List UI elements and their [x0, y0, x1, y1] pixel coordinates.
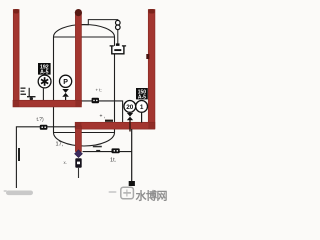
- svg-text:+ ,: + ,: [100, 114, 106, 120]
- blowdown end cap: [129, 181, 135, 186]
- vent line from riser to drain funnel: [81, 20, 118, 25]
- instrument bubble (pump/agitator star): [38, 75, 51, 88]
- open drain funnel box: [110, 46, 127, 54]
- dash above drain line: [93, 146, 102, 148]
- blowdown drop wire: [131, 129, 133, 182]
- svg-text:x.: x.: [64, 160, 67, 165]
- drain line from outlet to blowdown: [83, 151, 132, 153]
- small marks left of instrument: [21, 88, 36, 101]
- wire left gauge through header: [129, 120, 131, 132]
- svg-text:A-5: A-5: [138, 95, 146, 101]
- block valve on condensate line: [40, 125, 48, 130]
- wire right gauge to header: [141, 112, 143, 122]
- stem mark beside condensate drop: [18, 148, 20, 161]
- red header horizontal left: [13, 100, 81, 107]
- tag box 192/A-5: [38, 63, 51, 76]
- svg-text:+ t:: + t:: [96, 88, 102, 93]
- right pipe top cap: [149, 9, 155, 14]
- svg-text:水博网: 水博网: [136, 188, 168, 202]
- svg-text:P: P: [63, 79, 68, 86]
- svg-text:1: 1: [140, 104, 144, 111]
- condensate line left: [16, 127, 75, 188]
- block valve on sample line: [92, 98, 99, 104]
- block valve on drain line: [112, 148, 120, 153]
- tick on bottom header: [105, 120, 113, 122]
- svg-text:t.?): t.?): [37, 117, 45, 123]
- red bottom outlet drop: [75, 126, 81, 152]
- watermark logo badge: [121, 187, 134, 199]
- red bottom header horizontal right: [75, 122, 155, 129]
- gauge bubble right: [136, 101, 148, 113]
- wire below positioner: [78, 168, 80, 178]
- tank V1 (vertical vessel with dished heads): [54, 25, 115, 146]
- tag box 150/A-5: [136, 88, 148, 101]
- watermark blob bottom-left: [6, 191, 33, 196]
- left pipe top cap: [14, 9, 19, 14]
- valve (bowtie) under bubble P: [62, 87, 69, 100]
- valve (bowtie) under left gauge: [127, 113, 133, 120]
- riser top cap: [75, 9, 82, 16]
- red return pipe right vertical: [148, 10, 155, 129]
- sample line from riser to LG bridle: [81, 101, 123, 123]
- nozzle tick on right pipe: [146, 54, 149, 59]
- drain nozzle block: [116, 43, 120, 46]
- gauge bubble left: [124, 101, 136, 113]
- instrument bubble P (in-tank): [60, 75, 72, 87]
- positioner body: [75, 158, 81, 168]
- red supply pipe left vertical: [13, 10, 19, 107]
- purple control valve at outlet: [75, 150, 83, 158]
- pipe junction shading: [13, 100, 155, 129]
- vent valve (double-circle): [116, 20, 121, 29]
- wire instrument to fill header: [42, 88, 44, 100]
- svg-text:1t.: 1t.: [110, 158, 117, 164]
- svg-text:20: 20: [126, 104, 134, 111]
- svg-text:17,: 17,: [56, 142, 64, 148]
- red riser into tank top: [75, 13, 81, 104]
